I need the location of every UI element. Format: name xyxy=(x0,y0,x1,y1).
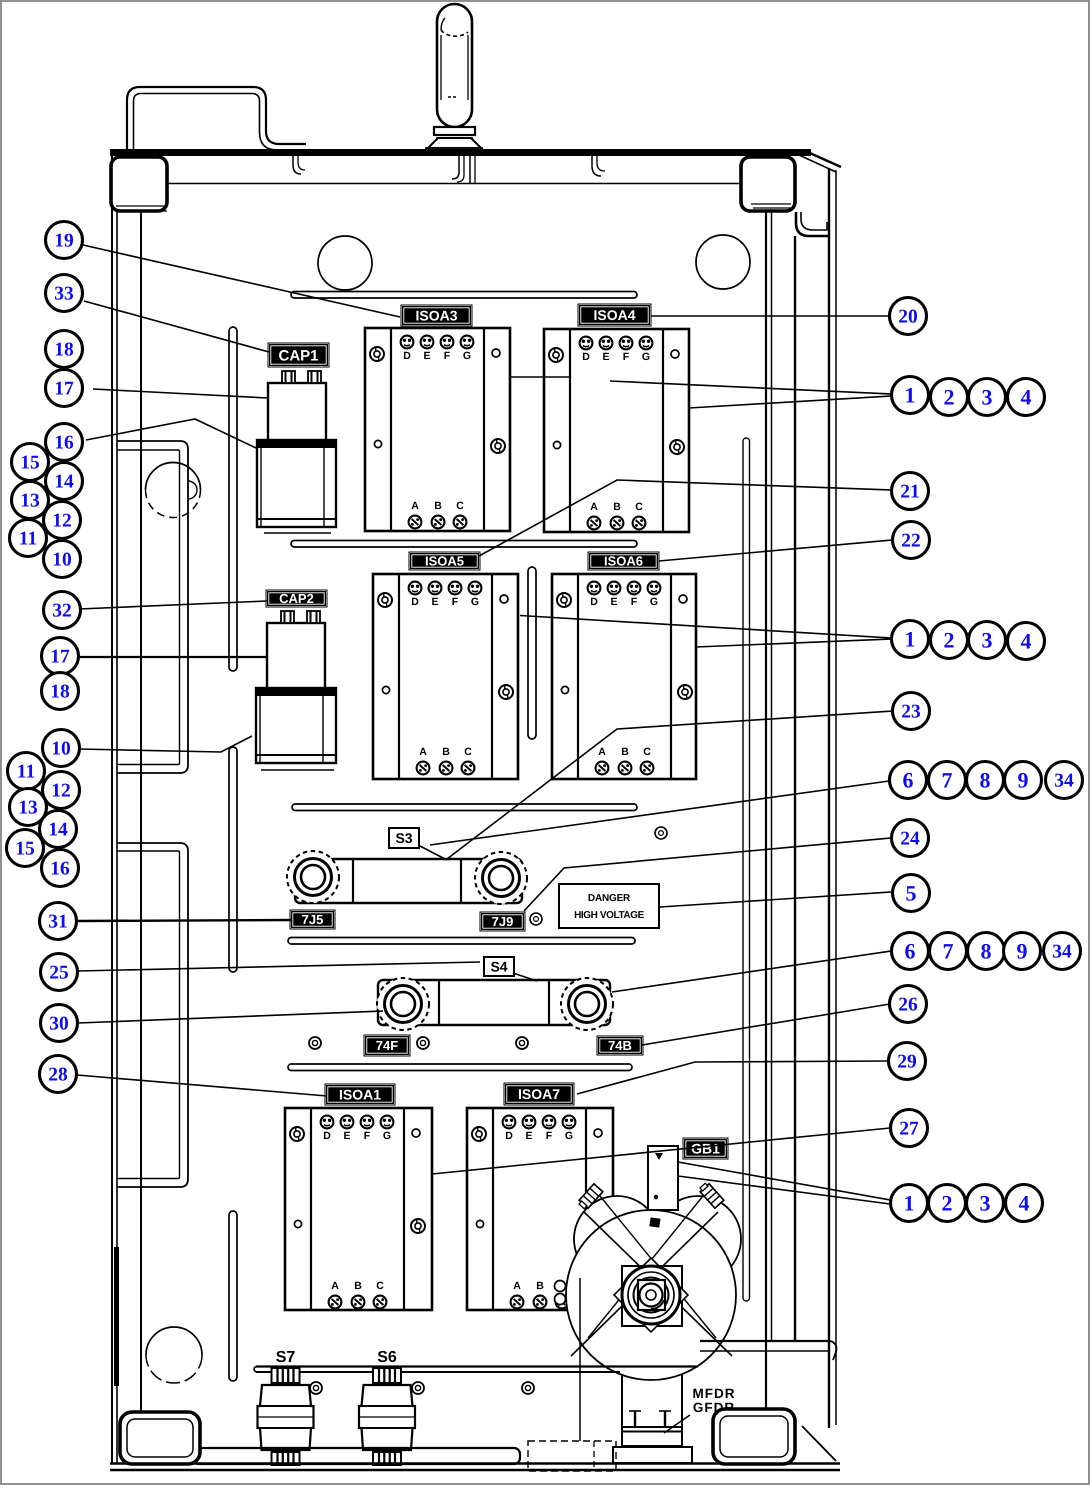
leader wire callout 27 to ISOA1/GB1 xyxy=(432,1128,890,1174)
isolation amplifier module ISOA4 xyxy=(544,329,689,532)
svg-text:74F: 74F xyxy=(376,1038,398,1053)
svg-text:F: F xyxy=(452,596,459,608)
right wall hook bracket xyxy=(796,212,830,236)
left foot xyxy=(120,1412,200,1464)
svg-text:E: E xyxy=(423,350,430,362)
capacitor CAP2 xyxy=(256,611,336,770)
leader wire callout 26 to 74B xyxy=(642,1004,890,1045)
svg-text:D: D xyxy=(411,596,419,608)
label ISOA1 xyxy=(325,1084,395,1105)
svg-text:B: B xyxy=(442,746,450,758)
svg-text:9: 9 xyxy=(1017,938,1028,963)
seam hook mid xyxy=(592,156,601,176)
svg-text:1: 1 xyxy=(905,382,916,407)
svg-text:G: G xyxy=(383,1130,391,1142)
svg-text:17: 17 xyxy=(54,379,74,400)
callout 2 xyxy=(929,1185,966,1222)
callout 7 xyxy=(930,933,967,970)
svg-text:25: 25 xyxy=(49,963,69,984)
leader wire callout 5 to DANGER sign xyxy=(660,892,891,907)
svg-text:ISOA3: ISOA3 xyxy=(415,308,457,324)
label ISOA5 xyxy=(409,552,480,570)
callout 11 xyxy=(8,753,45,790)
top-left corner block xyxy=(111,157,167,211)
leader wire ISOA5 to callouts 1-4 row2 xyxy=(520,616,891,639)
svg-text:E: E xyxy=(431,596,438,608)
callout 21 xyxy=(892,473,929,510)
svg-text:CAP1: CAP1 xyxy=(278,347,318,364)
svg-text:G: G xyxy=(642,351,650,363)
svg-text:4: 4 xyxy=(1019,1190,1030,1215)
svg-text:18: 18 xyxy=(54,340,74,361)
leader wire callout 16 to CAP1 mount xyxy=(86,419,256,448)
svg-text:S6: S6 xyxy=(377,1349,397,1366)
leader wire callout 20 to ISOA4 label xyxy=(651,315,889,317)
callout 16 xyxy=(42,850,79,887)
svg-text:G: G xyxy=(471,596,479,608)
callout 22 xyxy=(893,522,930,559)
label ISOA3 xyxy=(401,305,472,326)
callout 27 xyxy=(891,1110,928,1147)
support rail xyxy=(288,938,635,945)
svg-text:6: 6 xyxy=(905,938,916,963)
svg-text:12: 12 xyxy=(52,511,72,532)
svg-text:21: 21 xyxy=(900,482,920,503)
svg-text:B: B xyxy=(613,501,621,513)
leader wire callout 32 to CAP2 label xyxy=(79,601,267,609)
leader wire callout 21 to ISOA5 label xyxy=(479,480,891,556)
top panel hole right xyxy=(696,235,750,289)
callout 1 xyxy=(891,1185,928,1222)
label 74F xyxy=(364,1035,410,1056)
vertical slat xyxy=(528,567,536,739)
svg-text:6: 6 xyxy=(903,767,914,792)
callout 1 xyxy=(892,621,929,658)
svg-text:34: 34 xyxy=(1052,942,1072,963)
svg-text:29: 29 xyxy=(897,1052,917,1073)
callout 31 xyxy=(40,903,77,940)
svg-text:31: 31 xyxy=(48,912,68,933)
svg-text:7: 7 xyxy=(943,938,954,963)
leader wire callout 31 to 7J5 xyxy=(77,920,291,921)
callout 20 xyxy=(890,298,927,335)
callout 30 xyxy=(41,1005,78,1042)
label 7J9 xyxy=(480,912,525,931)
blower base xyxy=(613,1447,692,1463)
svg-text:16: 16 xyxy=(50,859,70,880)
svg-text:10: 10 xyxy=(52,550,72,571)
leader wire S3 lug to callouts 6-34 xyxy=(430,781,889,845)
leader wire callout 29 to ISOA7 label xyxy=(577,1061,888,1094)
callout 33 xyxy=(46,275,83,312)
svg-text:A: A xyxy=(590,501,598,513)
leader wire callout 17 to CAP2 xyxy=(71,656,267,658)
support rail xyxy=(291,292,637,299)
right thin slat xyxy=(743,438,750,1301)
callout 9 xyxy=(1004,933,1041,970)
label ISOA6 xyxy=(588,552,659,570)
left wall xyxy=(111,156,113,1463)
callout 10 xyxy=(43,730,80,767)
svg-text:13: 13 xyxy=(18,798,38,819)
callout 34 xyxy=(1044,933,1081,970)
callout 12 xyxy=(43,772,80,809)
leader S3 xyxy=(418,845,447,860)
svg-text:2: 2 xyxy=(944,384,955,409)
callout 9 xyxy=(1005,762,1042,799)
svg-text:15: 15 xyxy=(20,453,40,474)
label 7J5 xyxy=(290,910,335,929)
svg-text:28: 28 xyxy=(48,1065,68,1086)
svg-text:ISOA5: ISOA5 xyxy=(425,554,464,569)
svg-text:3: 3 xyxy=(982,384,993,409)
svg-text:A: A xyxy=(513,1280,521,1292)
isolation amplifier module ISOA3 xyxy=(365,328,510,531)
svg-text:E: E xyxy=(525,1130,532,1142)
svg-text:CAP2: CAP2 xyxy=(279,591,314,606)
label ISOA4 xyxy=(578,304,651,326)
svg-text:7J5: 7J5 xyxy=(302,912,324,927)
callout 34 xyxy=(1046,762,1083,799)
callout 26 xyxy=(890,986,927,1023)
svg-text:1: 1 xyxy=(905,626,916,651)
support rail xyxy=(292,804,637,811)
svg-text:GB1: GB1 xyxy=(691,1141,720,1157)
callout 25 xyxy=(41,954,78,991)
leader wire ISOA4 to callouts 1-4 xyxy=(610,381,891,394)
svg-text:F: F xyxy=(546,1130,553,1142)
callout 4 xyxy=(1006,1185,1043,1222)
label GB1 xyxy=(683,1138,728,1159)
callout 8 xyxy=(968,933,1005,970)
leader wire callout 28 to ISOA1 label xyxy=(77,1075,327,1096)
svg-text:A: A xyxy=(598,746,606,758)
svg-text:5: 5 xyxy=(906,880,917,905)
seam hook left xyxy=(293,156,301,174)
svg-text:D: D xyxy=(505,1130,513,1142)
svg-text:ISOA4: ISOA4 xyxy=(593,307,635,323)
vertical slat xyxy=(229,1211,237,1381)
svg-text:D: D xyxy=(590,596,598,608)
callout 29 xyxy=(889,1043,926,1080)
leader wire S4 lug to callouts 6-34 row2 xyxy=(612,951,891,992)
svg-text:15: 15 xyxy=(15,839,35,860)
standoff insulator S7 xyxy=(258,1349,314,1465)
svg-text:D: D xyxy=(582,351,590,363)
svg-text:20: 20 xyxy=(898,307,918,328)
callout 18 xyxy=(42,673,79,710)
support rail xyxy=(288,1064,632,1071)
leader wire callout 17 to CAP1 xyxy=(93,389,268,398)
svg-text:32: 32 xyxy=(52,601,72,622)
svg-text:DANGER: DANGER xyxy=(588,893,631,904)
insulator base plate xyxy=(193,1448,520,1464)
small circled screw b xyxy=(530,913,542,925)
svg-text:23: 23 xyxy=(901,702,921,723)
capacitor CAP1 xyxy=(257,371,336,533)
left duct panel upper xyxy=(117,441,188,773)
svg-text:C: C xyxy=(464,746,472,758)
leader wire callout 30 to 74F xyxy=(78,1011,383,1023)
label CAP2 xyxy=(266,590,327,607)
leader wire callout 24 to 7J9 xyxy=(524,838,891,911)
callout 7 xyxy=(929,762,966,799)
svg-text:14: 14 xyxy=(48,820,68,841)
slanted top right edge xyxy=(803,150,841,167)
svg-text:C: C xyxy=(635,501,643,513)
vertical slat xyxy=(229,327,237,671)
svg-text:F: F xyxy=(623,351,630,363)
callout 2 xyxy=(931,379,968,416)
callout 19 xyxy=(46,222,83,259)
mounting screws row xyxy=(309,1037,321,1049)
svg-text:7: 7 xyxy=(942,767,953,792)
top panel hole left xyxy=(318,236,372,290)
lifting handle xyxy=(127,87,306,150)
callout 24 xyxy=(892,820,929,857)
leader wire callout 22 to ISOA6 label xyxy=(659,540,892,561)
right wall bottom channel xyxy=(700,1340,830,1342)
svg-text:E: E xyxy=(602,351,609,363)
svg-text:HIGH VOLTAGE: HIGH VOLTAGE xyxy=(574,910,645,921)
leader wire callout 33 to CAP1 label xyxy=(84,301,269,352)
label S3 xyxy=(389,828,419,848)
callout 13 xyxy=(10,789,47,826)
label 74B xyxy=(597,1036,643,1055)
svg-text:4: 4 xyxy=(1021,384,1032,409)
svg-text:8: 8 xyxy=(980,767,991,792)
callout 1 xyxy=(892,377,929,414)
vertical slat xyxy=(229,747,237,972)
svg-text:G: G xyxy=(463,350,471,362)
svg-text:18: 18 xyxy=(50,682,70,703)
svg-text:B: B xyxy=(621,746,629,758)
callout 15 xyxy=(12,444,49,481)
svg-text:19: 19 xyxy=(54,231,74,252)
leader wire callout 10 to CAP2 mount xyxy=(79,736,252,752)
bottom base lines xyxy=(110,1462,840,1464)
leader wire GB1 bracket to callouts 1-4 row3 (a) xyxy=(678,1162,890,1200)
wire ISOA3 to ISOA4 xyxy=(510,376,570,378)
svg-text:A: A xyxy=(411,500,419,512)
svg-text:9: 9 xyxy=(1018,767,1029,792)
leader wire callout 19 to ISOA3 label xyxy=(83,245,400,317)
svg-text:B: B xyxy=(536,1280,544,1292)
lifting eye bolt xyxy=(426,4,482,153)
callout 32 xyxy=(44,592,81,629)
svg-text:12: 12 xyxy=(51,781,71,802)
svg-text:30: 30 xyxy=(49,1014,69,1035)
svg-text:2: 2 xyxy=(942,1190,953,1215)
callout 17 xyxy=(46,370,83,407)
callout 4 xyxy=(1008,623,1045,660)
callout 8 xyxy=(967,762,1004,799)
svg-text:16: 16 xyxy=(54,433,74,454)
callout 11 xyxy=(10,520,47,557)
isolation amplifier module ISOA7 xyxy=(467,1108,613,1310)
callout 6 xyxy=(892,933,929,970)
svg-text:B: B xyxy=(354,1280,362,1292)
svg-text:11: 11 xyxy=(19,529,37,550)
svg-text:A: A xyxy=(419,746,427,758)
callout 13 xyxy=(12,482,49,519)
svg-text:C: C xyxy=(643,746,651,758)
callout 3 xyxy=(969,622,1006,659)
callout 18 xyxy=(46,331,83,368)
svg-text:3: 3 xyxy=(982,627,993,652)
callout 5 xyxy=(893,875,930,912)
svg-text:2: 2 xyxy=(944,627,955,652)
svg-text:27: 27 xyxy=(899,1119,919,1140)
right wall xyxy=(765,211,767,1463)
svg-text:D: D xyxy=(323,1130,331,1142)
svg-text:ISOA1: ISOA1 xyxy=(339,1087,381,1103)
svg-text:3: 3 xyxy=(980,1190,991,1215)
svg-text:14: 14 xyxy=(54,472,74,493)
svg-text:74B: 74B xyxy=(608,1038,632,1053)
svg-text:1: 1 xyxy=(904,1190,915,1215)
top panel seam xyxy=(168,183,741,185)
bus bar above insulators xyxy=(256,1365,698,1367)
svg-text:E: E xyxy=(610,596,617,608)
svg-text:26: 26 xyxy=(898,995,918,1016)
eye-bolt mount lines xyxy=(452,156,459,179)
svg-text:4: 4 xyxy=(1021,628,1032,653)
label S4 xyxy=(484,957,514,976)
callout 2 xyxy=(931,622,968,659)
svg-text:17: 17 xyxy=(50,647,70,668)
callout 14 xyxy=(46,463,83,500)
duct base bracket xyxy=(622,1426,683,1428)
callout 10 xyxy=(44,541,81,578)
svg-text:B: B xyxy=(434,500,442,512)
callout 3 xyxy=(969,379,1006,416)
leader wire ISOA6 right column to callouts 1-4 row2 xyxy=(696,639,891,647)
svg-text:E: E xyxy=(343,1130,350,1142)
svg-text:24: 24 xyxy=(900,829,920,850)
disconnect link S3 xyxy=(287,851,527,904)
disconnect link S4 xyxy=(377,978,613,1030)
leader wire GB1 bracket to callouts 1-4 row3 (b) xyxy=(678,1176,890,1204)
callout 28 xyxy=(40,1056,77,1093)
svg-text:22: 22 xyxy=(901,531,921,552)
isolation amplifier module ISOA5 xyxy=(373,574,518,779)
support rail xyxy=(291,541,637,548)
standoff insulator S6 xyxy=(359,1349,415,1465)
top bar of cabinet xyxy=(110,149,811,156)
callout 6 xyxy=(890,762,927,799)
dashed service box xyxy=(528,1441,616,1471)
leader wire ISOA4 right column to callouts 1-4 xyxy=(689,396,891,408)
svg-text:S7: S7 xyxy=(276,1349,296,1366)
svg-text:G: G xyxy=(650,596,658,608)
svg-text:34: 34 xyxy=(1054,771,1074,792)
svg-text:ISOA6: ISOA6 xyxy=(604,554,643,569)
svg-text:S3: S3 xyxy=(395,830,412,846)
svg-text:10: 10 xyxy=(51,739,71,760)
left wall thick gasket strip xyxy=(114,1247,119,1386)
DANGER HIGH VOLTAGE sign xyxy=(559,884,659,928)
svg-text:F: F xyxy=(444,350,451,362)
svg-text:S4: S4 xyxy=(490,959,507,975)
leader MFDR xyxy=(664,1415,690,1433)
callout 16 xyxy=(46,424,83,461)
svg-text:33: 33 xyxy=(54,284,74,305)
svg-text:A: A xyxy=(331,1280,339,1292)
leader wire callout 25 to S4 label xyxy=(78,962,480,971)
svg-text:C: C xyxy=(376,1280,384,1292)
isolation amplifier module ISOA6 xyxy=(552,574,696,779)
leader S4 xyxy=(513,973,537,981)
callout 17 xyxy=(42,638,79,675)
svg-text:F: F xyxy=(631,596,638,608)
isolation amplifier module ISOA1 xyxy=(285,1108,432,1310)
svg-text:D: D xyxy=(403,350,411,362)
top-right corner block xyxy=(741,157,795,211)
svg-text:7J9: 7J9 xyxy=(492,914,514,929)
svg-text:G: G xyxy=(565,1130,573,1142)
callout 4 xyxy=(1008,379,1045,416)
svg-text:11: 11 xyxy=(17,762,35,783)
lower panel hole xyxy=(146,1327,202,1355)
blower assembly GB1 xyxy=(555,1146,742,1446)
panel hole xyxy=(146,463,201,491)
callout 14 xyxy=(40,811,77,848)
callout 3 xyxy=(967,1185,1004,1222)
svg-text:ISOA7: ISOA7 xyxy=(518,1086,560,1102)
svg-text:C: C xyxy=(456,500,464,512)
svg-text:8: 8 xyxy=(981,938,992,963)
callout 15 xyxy=(7,830,44,867)
label ISOA7 xyxy=(504,1083,574,1105)
left duct panel lower xyxy=(117,843,188,1187)
callout 12 xyxy=(44,502,81,539)
label CAP1 xyxy=(268,343,329,367)
right foot xyxy=(713,1409,795,1464)
leader wire callout 23 to S3 bar xyxy=(447,711,893,859)
svg-text:13: 13 xyxy=(20,491,40,512)
svg-text:F: F xyxy=(364,1130,371,1142)
svg-text:MFDR: MFDR xyxy=(693,1386,736,1401)
callout 23 xyxy=(893,693,930,730)
